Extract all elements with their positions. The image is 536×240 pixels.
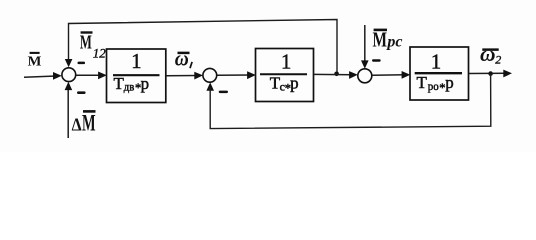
node: junction dot where top feedback taps block2 output	[334, 72, 339, 77]
wire: input M arrow	[24, 76, 56, 77]
block B2: 1/(Tc*p)	[256, 49, 314, 102]
svg-text:ро: ро	[428, 79, 439, 93]
svg-text:ω: ω	[480, 42, 496, 66]
summing junction J1	[62, 68, 76, 82]
wire: dM input from bottom into J1	[67, 88, 69, 139]
block B3: 1/(Tpo*p)	[410, 47, 469, 100]
wire: J1 to block1	[76, 74, 102, 76]
svg-text:p: p	[445, 73, 454, 92]
wire: arrowhead into summing junction J1 from top	[65, 59, 73, 67]
svg-text:1: 1	[431, 50, 442, 74]
label: minus sign at J1 top input	[78, 62, 86, 65]
wire: top feedback line (M12 path)	[69, 20, 338, 74]
label: minus sign at J1 bottom input	[77, 91, 86, 94]
svg-text:ω: ω	[175, 46, 189, 70]
wire: Mpc input from top into J3	[364, 25, 366, 62]
svg-text:p: p	[141, 74, 150, 93]
wire: bottom feedback arrowhead into J2	[206, 82, 214, 90]
wire: bottom feedback line	[210, 74, 491, 129]
svg-text:М: М	[28, 55, 42, 70]
svg-text:дв: дв	[124, 80, 135, 94]
svg-text:М: М	[80, 32, 92, 54]
wire: J2 to block2	[217, 74, 251, 76]
svg-text:p: p	[290, 74, 299, 93]
svg-text:12: 12	[93, 46, 107, 61]
summing junction J2	[203, 68, 217, 82]
wire: block1 to J2	[166, 75, 198, 77]
svg-text:1: 1	[281, 49, 292, 73]
block B1: 1/(Tdv*p)	[107, 49, 166, 103]
svg-text:М: М	[82, 110, 96, 135]
svg-text:Т: Т	[417, 73, 428, 92]
node: junction dot on output where bottom feedback taps	[488, 71, 493, 76]
wire: output omega2	[469, 72, 507, 74]
svg-text:рс: рс	[385, 34, 402, 51]
summing junction J3	[358, 69, 372, 83]
svg-text:Δ: Δ	[72, 114, 82, 134]
wire: J3 to block3	[372, 74, 406, 76]
svg-text:2: 2	[495, 53, 501, 67]
label: minus sign at J2 bottom input	[219, 91, 228, 94]
label: minus sign at J3 top input	[372, 59, 381, 62]
wire: block2 to J3	[314, 73, 353, 75]
svg-text:1: 1	[131, 49, 142, 73]
